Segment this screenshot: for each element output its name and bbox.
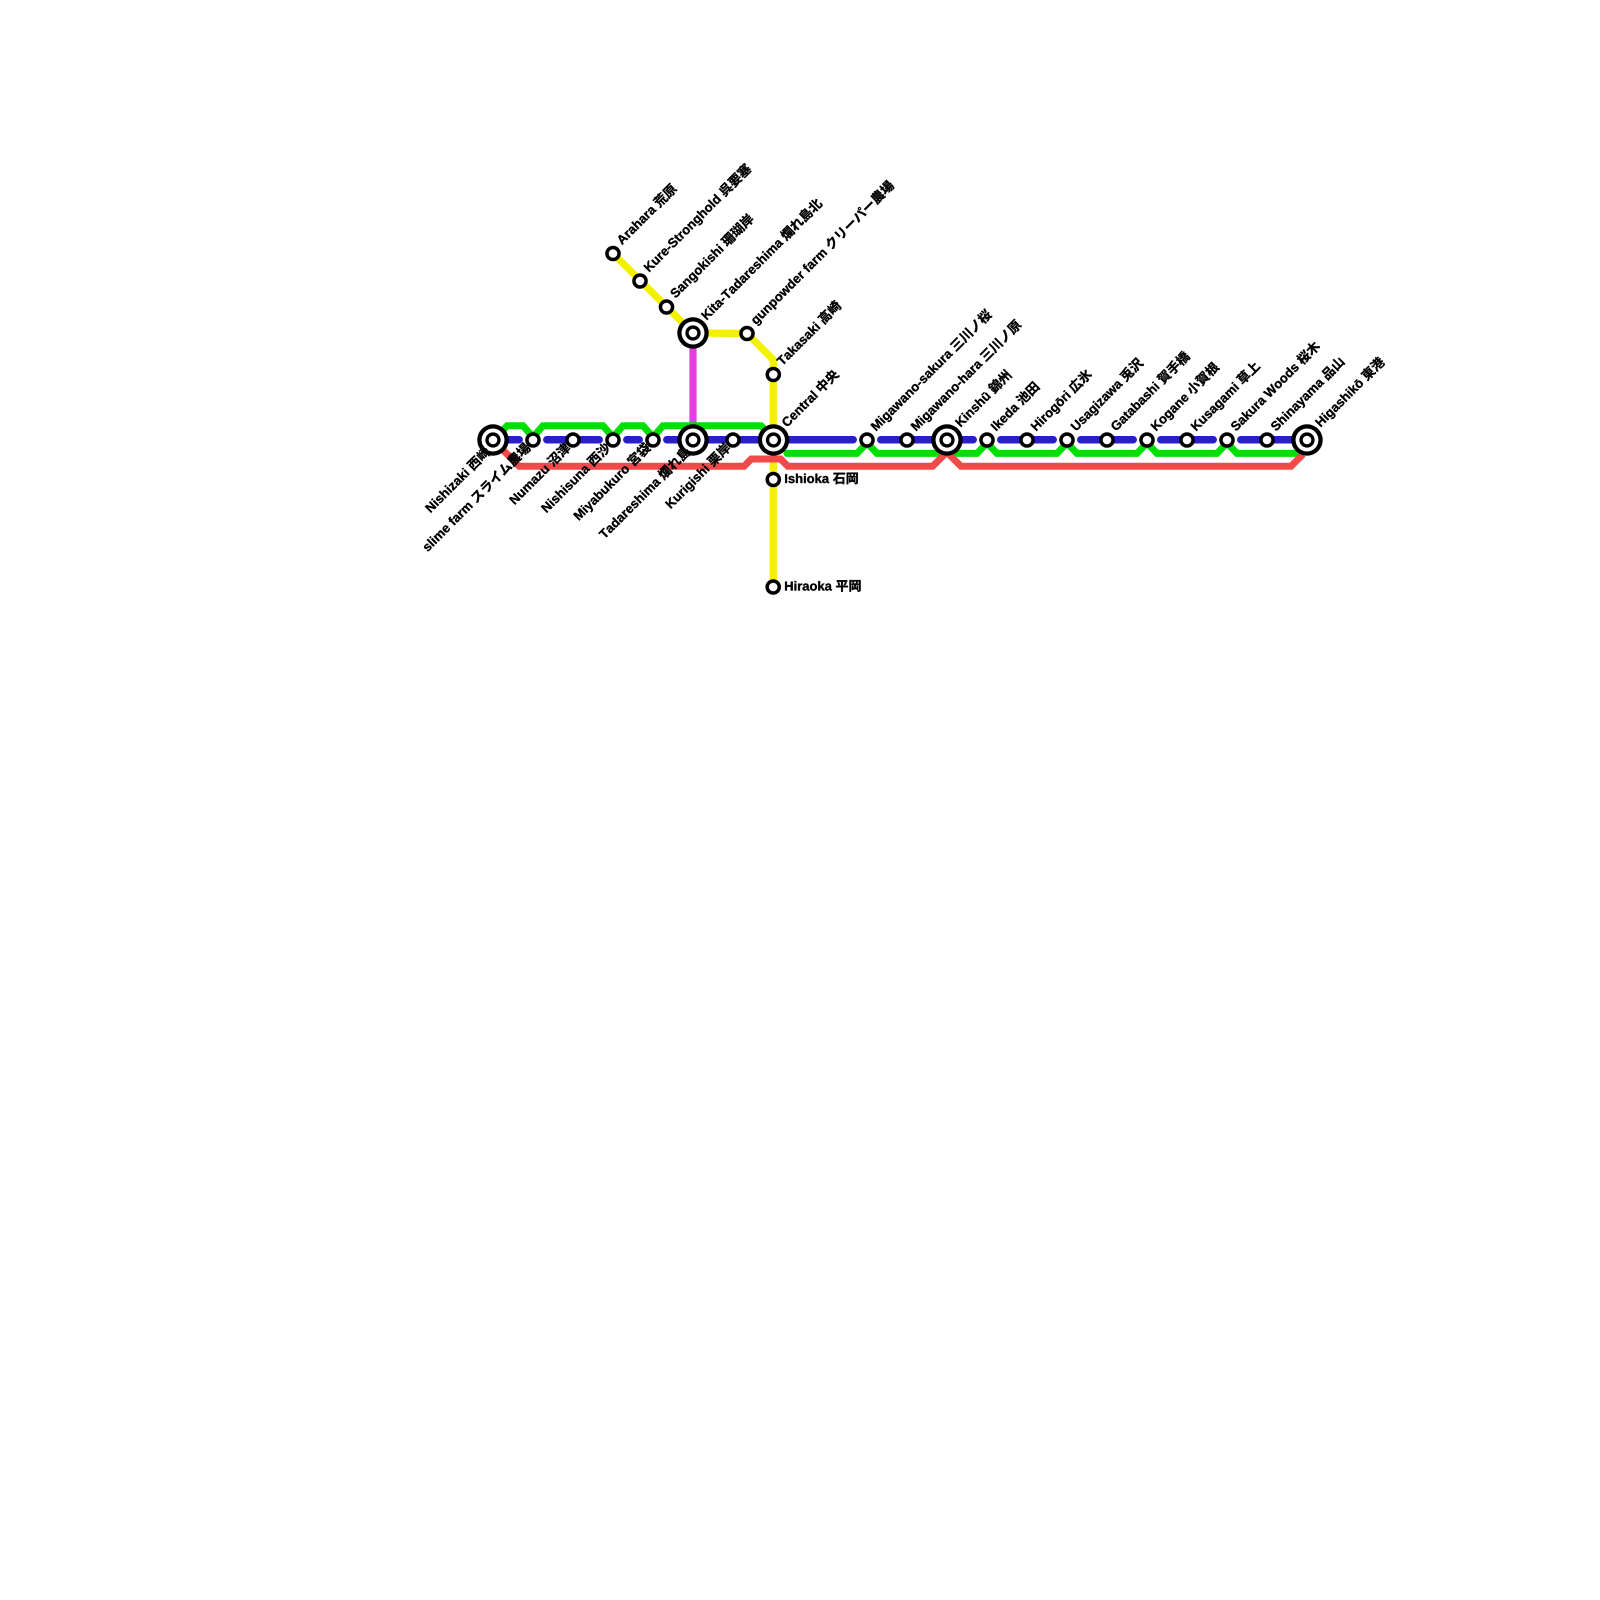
station Kurigishi: [725, 432, 741, 448]
station Kure-Stronghold: [632, 273, 648, 289]
station Sangokishi: [659, 299, 675, 315]
station Kita-Tadareshima: [677, 317, 709, 349]
station Gatabashi: [1099, 432, 1115, 448]
station Miyabukuro: [645, 432, 661, 448]
station Ishioka: [766, 472, 782, 488]
station Kogane: [1139, 432, 1155, 448]
station Nishisuna: [605, 432, 621, 448]
green line left section: [493, 426, 774, 440]
station Sakura: [1219, 432, 1235, 448]
station Migawano-hara: [899, 432, 915, 448]
station Kinshū: [931, 424, 963, 456]
station Central: [758, 424, 790, 456]
magenta line (Kita-Tadareshima - Tadareshima): [689, 333, 696, 440]
station Higashikō: [1291, 424, 1323, 456]
yellow line (branch Arahara-Central-Hiraoka): [613, 254, 773, 588]
station Hirogōri: [1019, 432, 1035, 448]
station Tadareshima: [677, 424, 709, 456]
station Shinayama: [1259, 432, 1275, 448]
station Arahara: [605, 246, 621, 262]
station slime: [525, 432, 541, 448]
labels: [420, 162, 1387, 592]
station Numazu: [565, 432, 581, 448]
station gunpowder: [739, 326, 755, 342]
station Ikeda: [979, 432, 995, 448]
station Takasaki: [766, 367, 782, 383]
station Nishizaki: [477, 424, 509, 456]
blue line (dashed corridor): [497, 436, 520, 444]
green line right section: [787, 443, 1305, 453]
station Hiraoka: [765, 579, 781, 595]
station Migawano-sakura: [859, 432, 875, 448]
station Usagizawa: [1059, 432, 1075, 448]
red line: [493, 440, 1303, 466]
station Kusagami: [1179, 432, 1195, 448]
